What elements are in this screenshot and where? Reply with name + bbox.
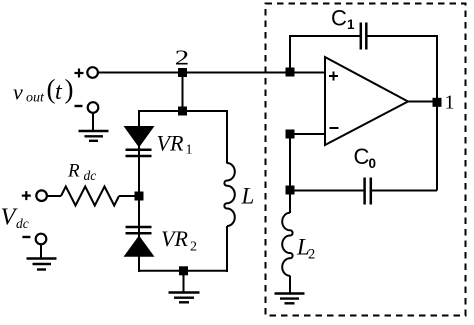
- svg-text:dc: dc: [16, 216, 29, 231]
- wire: Vdc- to ground: [40, 244, 42, 258]
- svg-text:2: 2: [190, 240, 197, 255]
- svg-text:VR: VR: [161, 226, 188, 251]
- svg-text:v: v: [13, 80, 23, 105]
- terminal + (vout): [87, 67, 98, 78]
- svg-text:out: out: [26, 91, 45, 106]
- tank top junction: [178, 107, 187, 116]
- svg-text:2: 2: [308, 247, 315, 263]
- junction: C0 left node: [286, 186, 295, 195]
- varactor VR1: [124, 126, 155, 156]
- node 2 junction: [178, 68, 187, 77]
- wire: op-amp output: [408, 101, 438, 103]
- wire: tank top: [139, 110, 227, 112]
- dashed feedback-network box: [266, 4, 466, 316]
- wire: vout+ terminal to op-amp + input: [98, 72, 325, 74]
- junction: op-amp + input node: [286, 68, 295, 77]
- minus sign (Vdc): [22, 236, 30, 238]
- wire: op-amp - input: [290, 133, 325, 135]
- ground (tank): [169, 293, 200, 303]
- ground (Vdc): [27, 259, 57, 270]
- ground (L2): [275, 294, 305, 304]
- op-amp - input sign: [330, 127, 339, 129]
- svg-text:1: 1: [445, 92, 455, 114]
- varactor VR2: [124, 227, 155, 257]
- wire: - node down to C0: [289, 134, 291, 213]
- ground (vout): [79, 131, 109, 141]
- svg-text:L: L: [241, 184, 255, 209]
- wire: C1 left vertical: [289, 36, 291, 73]
- plus sign (Vdc): [22, 191, 31, 200]
- svg-text:0: 0: [369, 156, 377, 171]
- wire: L2 to ground: [289, 276, 291, 294]
- terminal - (Vdc): [36, 234, 47, 245]
- op-amp + input sign: [329, 72, 338, 81]
- output junction node 1: [433, 98, 442, 107]
- plus sign (vout): [75, 69, 84, 78]
- terminal - (vout): [88, 102, 99, 113]
- svg-text:1: 1: [186, 143, 193, 158]
- svg-text:): ): [65, 74, 74, 104]
- wire: right vertical (C1 to C0): [436, 36, 438, 191]
- minus sign (vout): [75, 105, 83, 107]
- junction: op-amp - input node: [286, 130, 295, 139]
- wire: resistor to varactor junction: [119, 195, 139, 197]
- svg-text:2: 2: [175, 45, 190, 69]
- op-amp U1: [325, 57, 408, 145]
- inductor L2 coil: [282, 213, 292, 276]
- capacitor C1: [289, 23, 438, 50]
- svg-text:VR: VR: [157, 131, 184, 156]
- capacitor C0: [290, 178, 437, 205]
- resistor Rdc: [61, 187, 119, 206]
- wire: vout- to ground: [92, 113, 94, 131]
- tank bottom junction: [179, 266, 188, 275]
- svg-text:dc: dc: [84, 168, 97, 183]
- tank bottom wire: [138, 270, 228, 272]
- terminal + (Vdc): [36, 190, 47, 201]
- wire: tank to ground: [183, 271, 185, 293]
- Rdc junction: [135, 192, 144, 201]
- inductor L coil: [224, 163, 234, 226]
- wire: Vdc+ to resistor: [47, 195, 61, 197]
- svg-text:R: R: [67, 161, 80, 182]
- svg-text:C: C: [354, 144, 370, 169]
- wire: varactor branch: [138, 110, 140, 272]
- wire: node 2 down to tank top: [182, 73, 184, 112]
- svg-text:1: 1: [347, 17, 355, 32]
- inductor L branch: [226, 110, 228, 164]
- svg-text:C: C: [331, 6, 347, 31]
